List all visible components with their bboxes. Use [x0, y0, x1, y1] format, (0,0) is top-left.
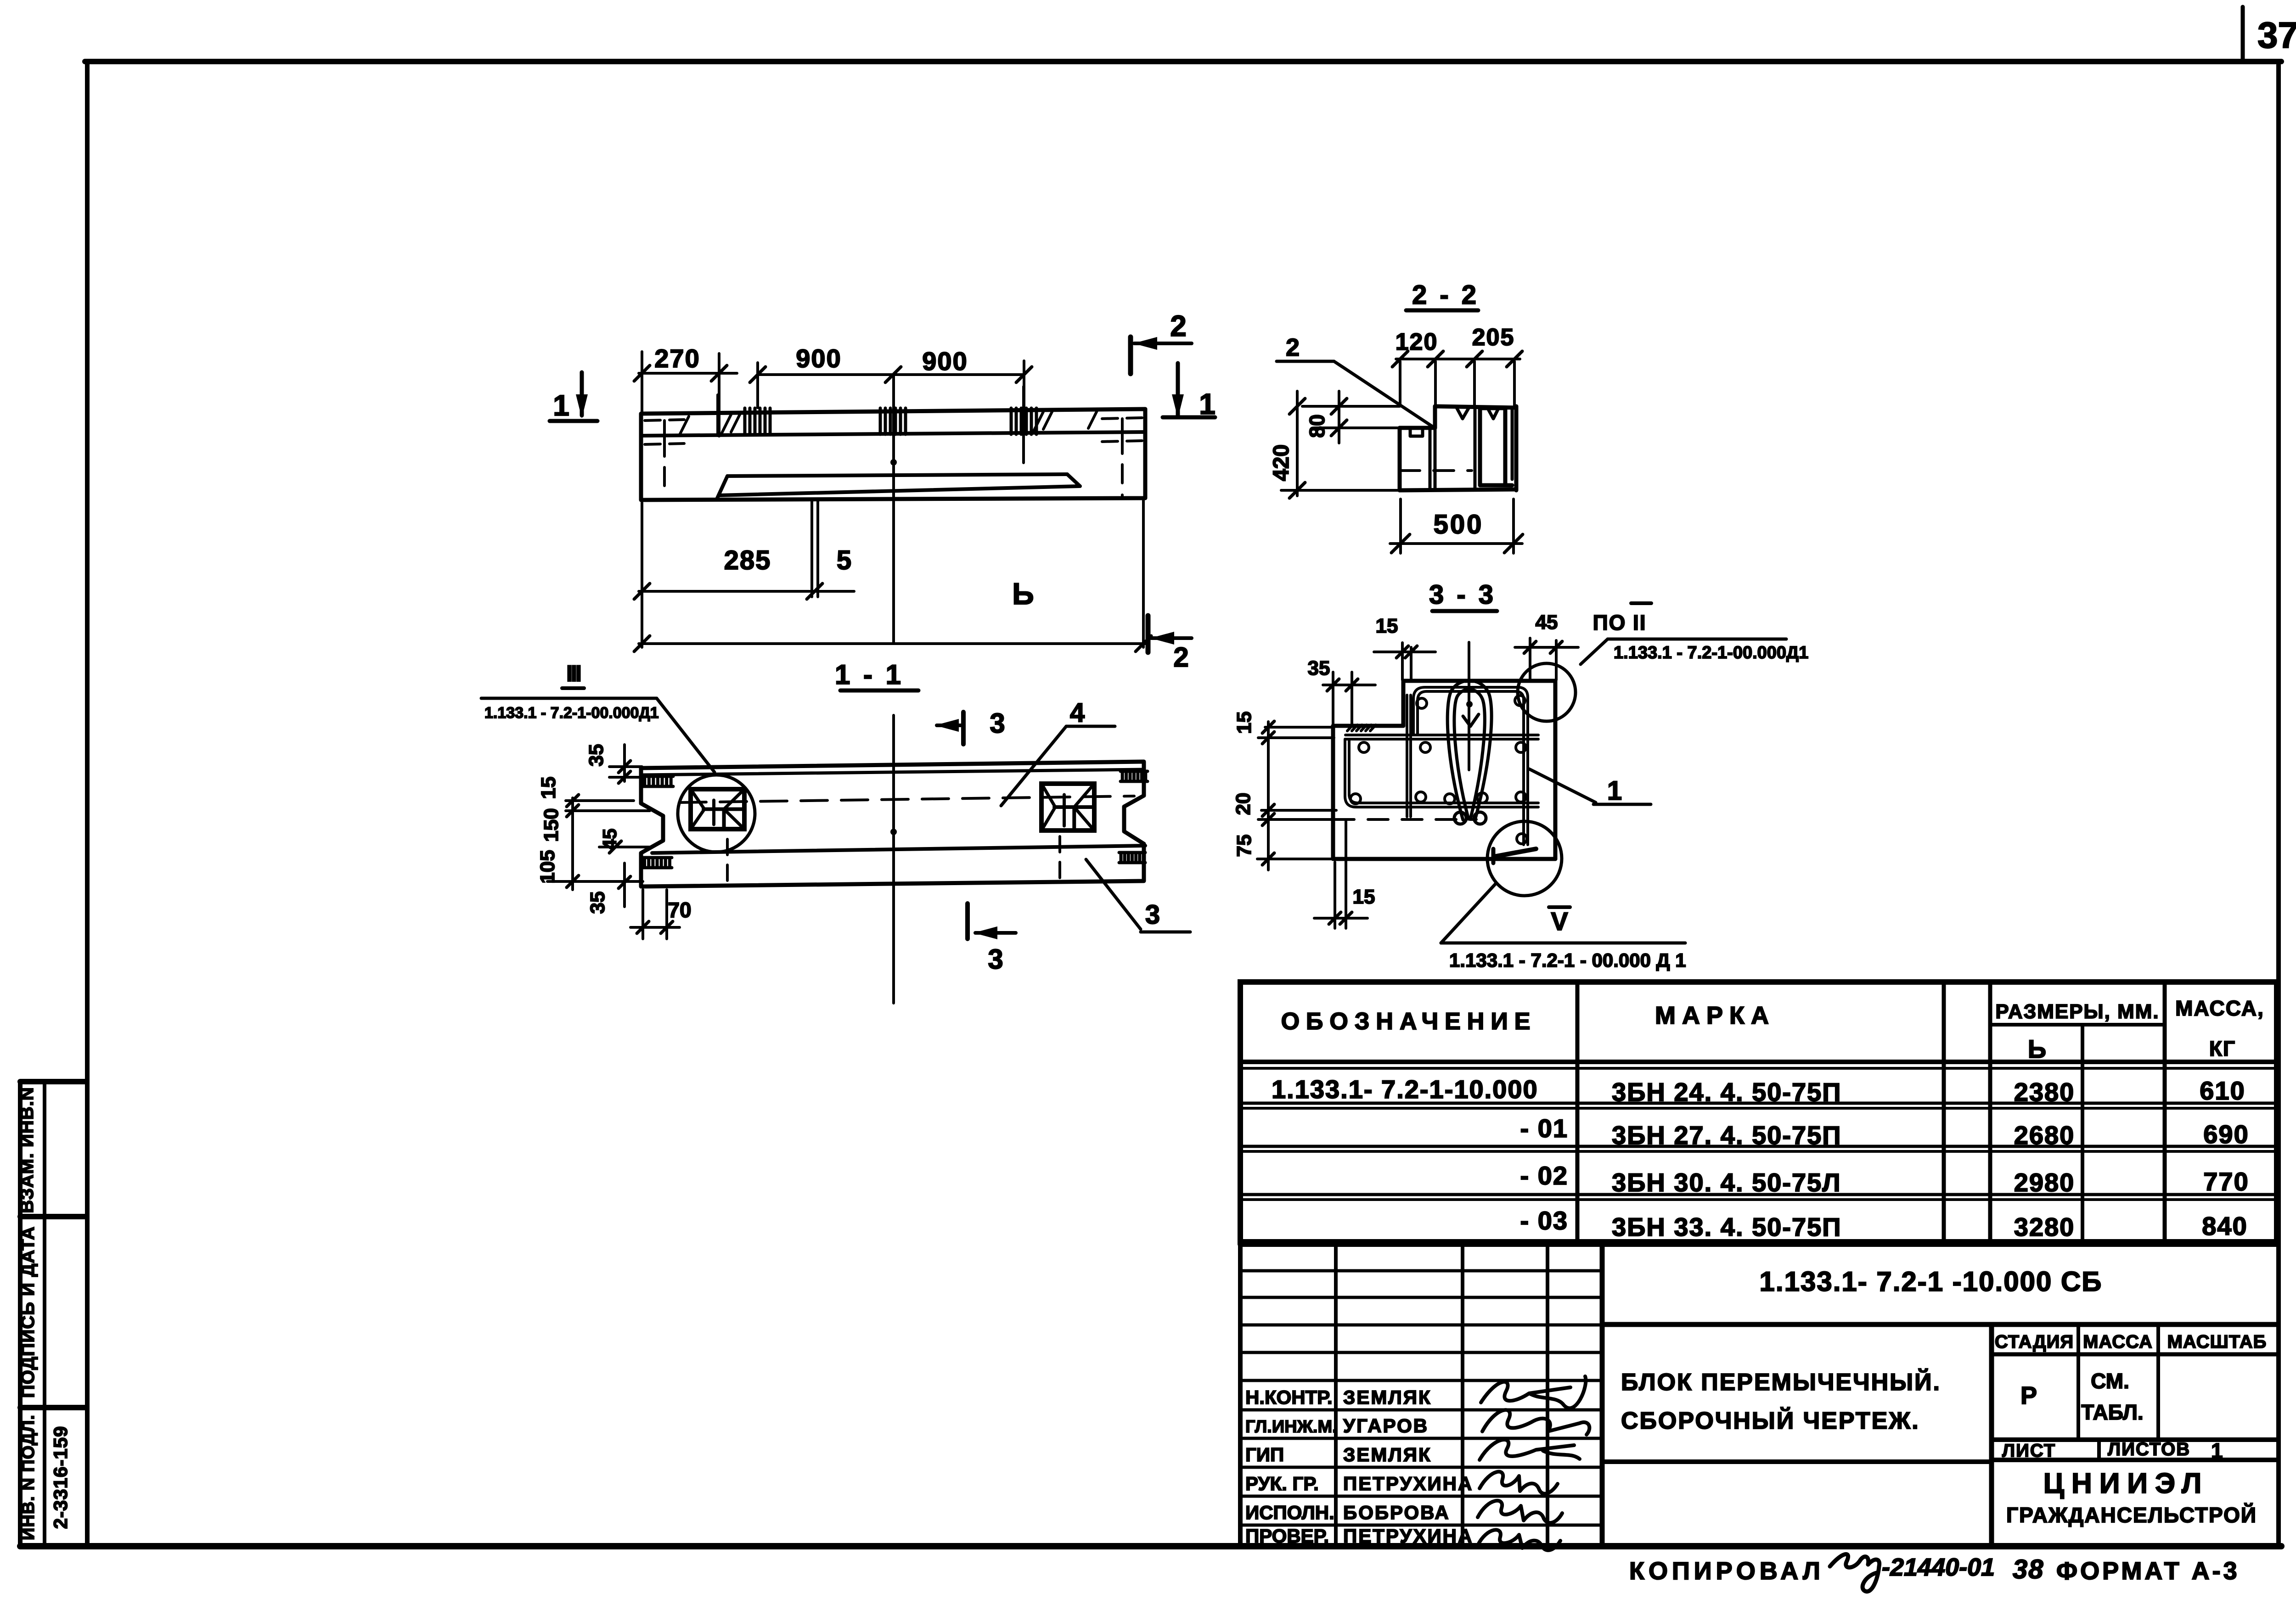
svg-text:СМ.: СМ. — [2091, 1369, 2129, 1393]
svg-text:III: III — [566, 661, 580, 686]
svg-text:4: 4 — [1070, 698, 1085, 728]
svg-text:500: 500 — [1434, 510, 1484, 539]
svg-text:900: 900 — [922, 347, 968, 376]
svg-text:15: 15 — [1233, 712, 1255, 734]
svg-text:ЦНИИЭЛ: ЦНИИЭЛ — [2043, 1468, 2209, 1499]
svg-text:РАЗМЕРЫ, ММ.: РАЗМЕРЫ, ММ. — [1995, 1000, 2159, 1023]
svg-text:5: 5 — [837, 545, 851, 575]
svg-text:Ь: Ь — [2028, 1034, 2046, 1063]
svg-text:-21440-01: -21440-01 — [1882, 1554, 1995, 1581]
svg-text:МАССА: МАССА — [2083, 1332, 2153, 1352]
svg-text:2: 2 — [1170, 309, 1187, 342]
svg-text:2380: 2380 — [2014, 1077, 2075, 1106]
svg-text:ПЕТРУХИНА: ПЕТРУХИНА — [1343, 1525, 1473, 1547]
svg-text:105: 105 — [536, 850, 559, 883]
svg-text:Н.КОНТР.: Н.КОНТР. — [1245, 1386, 1333, 1408]
svg-text:1: 1 — [553, 389, 569, 422]
svg-text:3280: 3280 — [2014, 1212, 2075, 1241]
svg-text:2: 2 — [1173, 642, 1188, 673]
svg-text:ПРОВЕР.: ПРОВЕР. — [1245, 1525, 1329, 1547]
svg-text:770: 770 — [2203, 1167, 2249, 1196]
svg-text:УГАРОВ: УГАРОВ — [1343, 1415, 1429, 1436]
svg-text:35: 35 — [585, 744, 608, 767]
svg-text:15: 15 — [537, 777, 560, 799]
svg-text:900: 900 — [796, 344, 841, 373]
svg-text:МАРКА: МАРКА — [1655, 1002, 1775, 1029]
svg-text:840: 840 — [2202, 1212, 2247, 1240]
svg-text:20: 20 — [1232, 793, 1255, 815]
svg-text:ЗЕМЛЯК: ЗЕМЛЯК — [1343, 1386, 1432, 1408]
svg-text:ТАБЛ.: ТАБЛ. — [2081, 1400, 2143, 1424]
svg-text:- 03: - 03 — [1520, 1206, 1569, 1235]
svg-text:3: 3 — [1145, 900, 1160, 930]
svg-text:75: 75 — [1233, 835, 1255, 857]
svg-text:2: 2 — [1286, 334, 1300, 361]
svg-text:ФОРМАТ А-3: ФОРМАТ А-3 — [2056, 1557, 2240, 1585]
svg-text:ЛИСТОВ: ЛИСТОВ — [2108, 1439, 2190, 1459]
svg-text:ГЛ.ИНЖ.М.: ГЛ.ИНЖ.М. — [1245, 1417, 1337, 1436]
svg-text:КГ: КГ — [2209, 1037, 2236, 1060]
svg-text:2680: 2680 — [2014, 1121, 2075, 1150]
svg-text:420: 420 — [1269, 444, 1294, 481]
svg-text:ГИП: ГИП — [1245, 1444, 1284, 1465]
svg-text:1.133.1- 7.2-1-10.000: 1.133.1- 7.2-1-10.000 — [1272, 1075, 1538, 1104]
svg-text:15: 15 — [1376, 615, 1398, 637]
svg-text:3: 3 — [990, 708, 1005, 739]
svg-text:35: 35 — [586, 892, 609, 914]
svg-text:38: 38 — [2013, 1554, 2044, 1584]
svg-text:70: 70 — [668, 898, 691, 922]
svg-text:V: V — [1551, 907, 1568, 936]
svg-text:3БН 33. 4. 50-75П: 3БН 33. 4. 50-75П — [1612, 1212, 1842, 1241]
svg-text:- 01: - 01 — [1520, 1114, 1569, 1143]
svg-text:ИСПОЛН.: ИСПОЛН. — [1245, 1502, 1334, 1523]
svg-text:РУК. ГР.: РУК. ГР. — [1245, 1473, 1319, 1494]
svg-text:610: 610 — [2200, 1076, 2245, 1105]
svg-text:2980: 2980 — [2014, 1168, 2075, 1197]
svg-text:БОБРОВА: БОБРОВА — [1343, 1502, 1450, 1523]
svg-text:1: 1 — [1607, 776, 1622, 806]
svg-text:285: 285 — [724, 545, 771, 575]
svg-text:КОПИРОВАЛ: КОПИРОВАЛ — [1629, 1557, 1824, 1585]
svg-text:ПО: ПО — [1593, 611, 1626, 634]
svg-text:15: 15 — [1353, 886, 1375, 908]
svg-text:1 - 1: 1 - 1 — [835, 659, 904, 690]
svg-text:1.133.1- 7.2-1 -10.000 СБ: 1.133.1- 7.2-1 -10.000 СБ — [1760, 1266, 2103, 1297]
svg-text:1.133.1 - 7.2-1-00.000Д1: 1.133.1 - 7.2-1-00.000Д1 — [484, 704, 659, 722]
svg-text:МАСШТАБ: МАСШТАБ — [2167, 1332, 2267, 1352]
svg-text:3: 3 — [988, 944, 1003, 975]
svg-text:45: 45 — [1536, 611, 1558, 634]
svg-text:205: 205 — [1472, 324, 1515, 351]
svg-text:ОБОЗНАЧЕНИЕ: ОБОЗНАЧЕНИЕ — [1281, 1008, 1537, 1035]
svg-text:ПЕТРУХИНА: ПЕТРУХИНА — [1343, 1473, 1473, 1494]
svg-text:3БН 27. 4. 50-75П: 3БН 27. 4. 50-75П — [1612, 1121, 1842, 1150]
svg-text:2 - 2: 2 - 2 — [1412, 280, 1479, 310]
svg-text:3БН 24. 4. 50-75П: 3БН 24. 4. 50-75П — [1612, 1077, 1842, 1106]
svg-text:80: 80 — [1305, 414, 1329, 438]
svg-text:МАССА,: МАССА, — [2175, 996, 2264, 1020]
svg-text:270: 270 — [654, 344, 700, 373]
svg-text:3БН 30. 4. 50-75Л: 3БН 30. 4. 50-75Л — [1612, 1168, 1841, 1197]
svg-text:СБОРОЧНЫЙ ЧЕРТЕЖ.: СБОРОЧНЫЙ ЧЕРТЕЖ. — [1621, 1407, 1920, 1434]
svg-text:ВЗАМ. ИНВ.N: ВЗАМ. ИНВ.N — [17, 1087, 37, 1213]
svg-text:- 02: - 02 — [1520, 1161, 1569, 1190]
svg-text:БЛОК ПЕРЕМЫЧЕЧНЫЙ.: БЛОК ПЕРЕМЫЧЕЧНЫЙ. — [1621, 1369, 1941, 1396]
svg-text:150: 150 — [540, 808, 563, 842]
svg-text:ЗЕМЛЯК: ЗЕМЛЯК — [1343, 1444, 1432, 1465]
svg-text:ПОДПИСЬ И ДАТА: ПОДПИСЬ И ДАТА — [18, 1226, 38, 1398]
svg-text:35: 35 — [1308, 657, 1330, 679]
svg-text:Р: Р — [2020, 1382, 2037, 1409]
svg-text:3 - 3: 3 - 3 — [1429, 580, 1496, 610]
svg-text:1.133.1 - 7.2-1-00.000Д1: 1.133.1 - 7.2-1-00.000Д1 — [1614, 643, 1808, 662]
svg-text:1.133.1 - 7.2-1 - 00.000 Д 1: 1.133.1 - 7.2-1 - 00.000 Д 1 — [1449, 949, 1686, 971]
svg-text:Ь: Ь — [1012, 577, 1034, 611]
svg-text:690: 690 — [2203, 1120, 2249, 1149]
svg-text:II: II — [1633, 611, 1647, 634]
svg-text:120: 120 — [1396, 329, 1438, 355]
svg-text:2-3316-159: 2-3316-159 — [50, 1426, 71, 1529]
svg-text:СТАДИЯ: СТАДИЯ — [1995, 1332, 2074, 1352]
svg-text:ГРАЖДАНСЕЛЬСТРОЙ: ГРАЖДАНСЕЛЬСТРОЙ — [2006, 1503, 2257, 1527]
svg-text:ИНВ. N ПОДЛ.: ИНВ. N ПОДЛ. — [19, 1414, 38, 1540]
svg-text:37: 37 — [2257, 15, 2296, 56]
